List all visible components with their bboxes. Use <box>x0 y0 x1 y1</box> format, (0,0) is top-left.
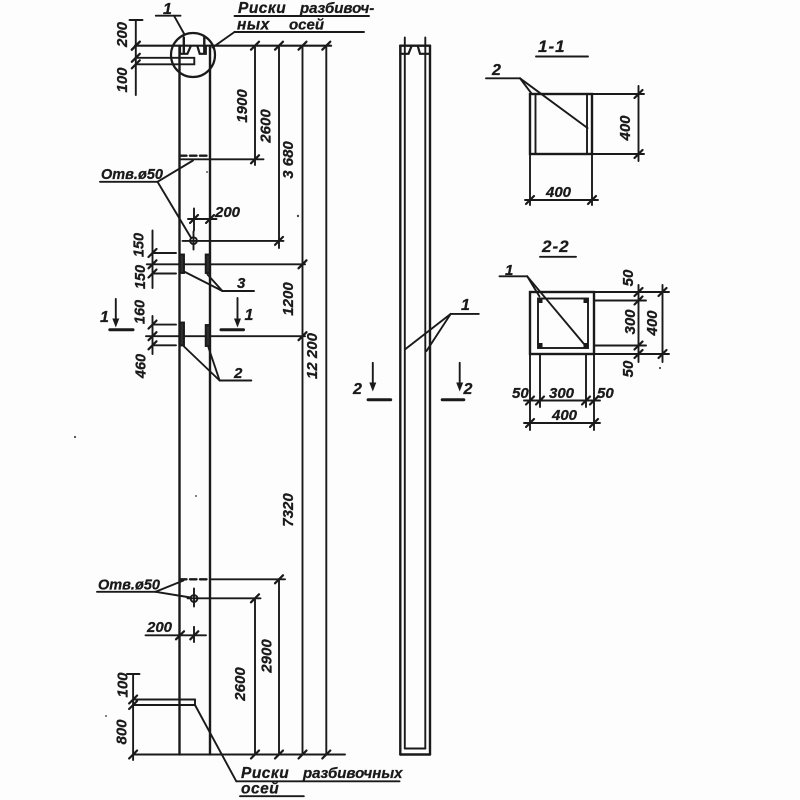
section mark 1 right arrow <box>237 298 239 320</box>
scan speckle c <box>206 171 208 173</box>
tick left chain y64.3 <box>132 60 140 68</box>
s22 outer right chain 400 <box>662 285 664 362</box>
axis mark notch right centerline <box>203 38 205 54</box>
svg-text:1: 1 <box>245 307 254 324</box>
label 1 leader <box>174 16 185 35</box>
tick r400 bottom <box>659 350 667 358</box>
tick r 345.5 <box>635 342 643 350</box>
svg-text:осей: осей <box>289 17 324 34</box>
long ext plate3 centerline <box>147 263 305 265</box>
bottom label underline row2 <box>240 795 304 797</box>
Otv top leader to dashed hole <box>158 161 194 182</box>
svg-text:осей: осей <box>241 781 279 798</box>
svg-text:200: 200 <box>146 619 173 636</box>
tick left chain y45.7 <box>132 42 140 50</box>
svg-text:2: 2 <box>233 365 243 382</box>
embedded plate 3 right <box>206 255 210 274</box>
section 2-2 rebar cage <box>538 299 588 349</box>
rebar corner bar b <box>584 298 589 303</box>
svg-text:160: 160 <box>133 300 149 324</box>
label 1 underline <box>156 15 181 17</box>
tick 400r bottom <box>635 150 643 158</box>
side view notch right <box>418 46 430 54</box>
svg-text:1900: 1900 <box>234 89 251 123</box>
svg-text:100: 100 <box>114 67 131 93</box>
svg-text:150: 150 <box>133 265 149 289</box>
tick 200 at edge <box>206 215 214 223</box>
svg-text:800: 800 <box>114 719 131 745</box>
tick 100 lower <box>129 701 137 709</box>
hole Otv50 bottom <box>191 595 198 602</box>
svg-text:50: 50 <box>597 385 614 402</box>
svg-text:400: 400 <box>551 407 578 424</box>
section mark 2 right arrow <box>459 363 461 384</box>
Otv top leader to round hole <box>158 182 192 238</box>
s22 ext right y300.5 <box>594 300 646 302</box>
svg-text:2600: 2600 <box>232 667 249 702</box>
embedded plate 2 left <box>180 323 184 346</box>
rebar corner bar c <box>538 343 543 348</box>
rebar corner bar a <box>538 298 543 303</box>
svg-text:150: 150 <box>132 233 148 257</box>
svg-text:300: 300 <box>549 385 575 402</box>
svg-text:400: 400 <box>617 115 634 142</box>
label underline row1 <box>235 15 370 17</box>
tick 3680 bottom <box>299 260 307 268</box>
scan speckle d <box>659 367 661 369</box>
ext plate3 bottom <box>153 273 177 275</box>
section mark 2 right bar <box>442 398 464 401</box>
scan speckle e <box>195 495 197 497</box>
Otv bottom leader to dashed hole <box>156 581 184 592</box>
hole bottom vertical axis <box>193 589 195 607</box>
dim 200 top line <box>188 218 217 220</box>
tick top chain x135.8 <box>132 42 140 50</box>
100 offset bracket lines <box>136 58 195 65</box>
hole vertical axis <box>193 232 195 250</box>
s22 ext bottom x594 <box>593 354 595 430</box>
section 1-1 ext right bottom <box>592 153 644 155</box>
svg-text:2900: 2900 <box>259 639 276 674</box>
label leader to circle <box>213 32 235 48</box>
svg-text:2600: 2600 <box>258 109 275 144</box>
section 1-1 title underline <box>536 56 588 58</box>
section mark 1 left bar <box>110 328 133 331</box>
column top edge and top dimension line <box>135 45 331 47</box>
top-left dimension chain line <box>135 20 137 95</box>
s22 ext right y345.5 <box>594 345 646 347</box>
s22 ext right y292 <box>594 291 669 293</box>
svg-text:2: 2 <box>352 381 362 398</box>
tick r 292 <box>635 288 643 296</box>
column front view right edge <box>209 46 211 755</box>
tick top x326.3 <box>322 42 330 50</box>
svg-text:разбивочных: разбивочных <box>302 765 403 782</box>
extension 2900 level <box>210 578 285 580</box>
section mark 1 left arrow <box>115 299 117 320</box>
tick bottom x302.5 <box>299 751 307 759</box>
section 1-1 leader long <box>520 78 588 128</box>
s22 outer bottom chain 400 <box>524 422 600 424</box>
section 1-1 leader short <box>520 78 532 93</box>
section 2-2 title underline <box>540 256 576 258</box>
svg-text:3 680: 3 680 <box>280 141 297 179</box>
tick r 354 <box>635 350 643 358</box>
chain top cap <box>130 19 143 21</box>
tick 400b right <box>588 196 596 204</box>
hidden hole dashed line top <box>180 154 207 156</box>
tick 100 <box>129 696 137 704</box>
label 2 leader left <box>184 347 220 381</box>
tick 160 a <box>149 321 157 329</box>
bottom chain 2600 <box>254 598 256 754</box>
embedded plate 2 right <box>206 325 210 346</box>
tick 200b at hole <box>190 631 198 639</box>
tick r 300.5 <box>635 297 643 305</box>
tick b 540 <box>536 397 544 405</box>
dim 200 top hole vertical ext <box>193 209 195 231</box>
svg-text:400: 400 <box>644 310 661 337</box>
side view inner right line <box>424 38 426 749</box>
tick top x279 <box>275 42 283 50</box>
rebar leader a <box>406 314 451 349</box>
svg-text:100: 100 <box>115 672 132 698</box>
tick 800 <box>129 751 137 759</box>
left small chain 150-150 <box>152 231 154 289</box>
side view bottom edge <box>400 753 430 755</box>
dim 200 bottom line <box>146 634 207 636</box>
section 1-1 dim line 400 right <box>638 86 640 161</box>
axis mark notch left <box>180 46 191 54</box>
tick top x255 <box>251 42 259 50</box>
bottom chain 2900 <box>278 579 280 754</box>
tick 400b left <box>526 196 534 204</box>
bottom-left chain 100-800 <box>132 674 134 760</box>
svg-text:разбивоч-: разбивоч- <box>299 0 374 17</box>
tick 150 b <box>149 260 157 268</box>
label 3 leader right <box>208 275 223 292</box>
tick 200b at edge <box>176 631 184 639</box>
svg-text:Риски: Риски <box>241 765 289 782</box>
tick 150 c <box>149 270 157 278</box>
section mark 2 left arrow <box>372 363 374 384</box>
bottom dimension base line <box>133 754 345 756</box>
svg-text:2-2: 2-2 <box>541 237 570 256</box>
svg-text:300: 300 <box>622 309 639 335</box>
svg-text:2: 2 <box>463 381 473 398</box>
label underline row2 <box>235 31 365 33</box>
section 1-1 ext bottom right <box>591 154 593 205</box>
s22 ext bottom x530 <box>529 354 531 430</box>
section 2-2 square <box>530 292 594 354</box>
Otv top underline <box>100 181 158 183</box>
left small chain 160-460 <box>152 316 154 354</box>
tick 400r top <box>635 90 643 98</box>
label 2 leader right <box>209 348 220 381</box>
dim chain 3680-1200-7320 <box>302 46 304 755</box>
section 1-1 ext bottom left <box>529 154 531 205</box>
bottom label underline row1 <box>236 780 399 782</box>
bottom axis mark upper line <box>133 699 195 701</box>
dim chain 12200 <box>325 46 327 755</box>
svg-text:Риски: Риски <box>238 0 286 17</box>
tick b400 left <box>526 419 534 427</box>
rebar leader b <box>427 314 451 351</box>
svg-text:1: 1 <box>100 309 109 326</box>
svg-text:460: 460 <box>134 354 150 379</box>
axis mark notch left centerline <box>183 38 185 54</box>
svg-text:3: 3 <box>237 275 246 292</box>
tick 150 a <box>149 249 157 257</box>
section mark 1 right bar <box>221 328 244 331</box>
bottom-left chain cap <box>127 673 140 675</box>
bottom axis mark end cap <box>194 700 196 706</box>
scan speckle b <box>297 215 299 217</box>
detail circle callout <box>171 33 215 77</box>
svg-text:Отв.ø50: Отв.ø50 <box>101 167 163 183</box>
long ext plate2 centerline <box>146 335 305 337</box>
svg-text:50: 50 <box>512 385 529 402</box>
label 2 underline <box>220 380 252 382</box>
svg-text:12 200: 12 200 <box>304 332 321 379</box>
tick 160 b <box>149 332 157 340</box>
column front view left edge <box>178 46 180 755</box>
section 2-2 label 1 underline <box>500 275 528 277</box>
s22 inner right chain <box>638 285 640 362</box>
svg-text:ных: ных <box>237 17 271 34</box>
svg-text:2: 2 <box>491 62 501 79</box>
svg-text:1: 1 <box>461 297 470 314</box>
tick 160 c <box>149 341 157 349</box>
tick 2600 bottom <box>275 237 283 245</box>
section 2-2 leader short <box>527 276 539 296</box>
tick bottom x279 <box>275 751 283 759</box>
svg-text:1-1: 1-1 <box>538 37 566 56</box>
Otv bottom leader to round hole <box>156 592 191 598</box>
tick bottom x326.3 <box>322 751 330 759</box>
section 1-1 square <box>530 94 592 154</box>
tick 1900 bottom <box>251 155 259 163</box>
tick b 530 <box>526 397 534 405</box>
tick bottom x255 <box>251 751 259 759</box>
ext plate2 top <box>153 324 177 326</box>
dim 200 bottom vertical ext <box>193 627 195 642</box>
tick b 586 <box>582 397 590 405</box>
svg-text:200: 200 <box>214 204 241 221</box>
svg-text:400: 400 <box>545 184 572 201</box>
Otv bottom underline <box>97 591 156 593</box>
section mark 2 left bar <box>368 398 391 401</box>
scan speckle a <box>74 436 76 438</box>
tick left chain y57.8 <box>132 54 140 62</box>
bottom axis mark lower line <box>133 704 195 706</box>
section 1-1 dim line 400 bottom <box>525 199 598 201</box>
svg-text:200: 200 <box>114 21 131 48</box>
tick b 594 <box>590 397 598 405</box>
svg-text:1200: 1200 <box>280 282 297 316</box>
svg-text:7320: 7320 <box>280 493 297 527</box>
svg-text:50: 50 <box>620 269 637 286</box>
tick top x302.5 <box>299 42 307 50</box>
s22 ext bottom x540 <box>539 354 541 407</box>
tick 200 at hole <box>190 215 198 223</box>
s22 ext bottom x586 <box>585 354 587 407</box>
side view inner left line <box>404 38 406 749</box>
section 1-1 label 2 underline <box>486 77 520 79</box>
section 1-1 inner chamfer left <box>535 94 537 154</box>
bottom label leader <box>195 705 236 781</box>
side view outer right edge <box>429 46 431 755</box>
hole Otv50 top <box>190 237 197 244</box>
dim chain 1900 <box>254 46 256 165</box>
section 2-2 leader long <box>527 276 584 344</box>
tick 2900 top <box>275 575 283 583</box>
hidden hole dashed line bottom <box>180 578 207 580</box>
side view top edge <box>400 45 430 47</box>
extension line hole1 level y159 <box>180 158 264 160</box>
ext plate2 bottom <box>153 344 177 346</box>
section 1-1 inner chamfer right <box>586 94 588 154</box>
s22 inner bottom chain <box>524 400 600 402</box>
tick 1200 bottom <box>299 332 307 340</box>
side view outer left edge <box>399 46 401 755</box>
tick 2600 top <box>251 594 259 602</box>
label 3 leader left <box>184 272 222 292</box>
side view notch left <box>401 46 412 54</box>
rebar label line <box>451 313 479 315</box>
tick r400 top <box>659 288 667 296</box>
label 3 underline <box>222 290 254 292</box>
hole bottom axis extension <box>188 597 261 599</box>
side view inner bottom line <box>405 748 426 750</box>
dim chain 2600 <box>278 46 280 248</box>
rebar corner bar d <box>584 343 589 348</box>
axis mark notch right <box>197 46 205 54</box>
svg-text:50: 50 <box>620 360 637 377</box>
upper hole axis extension <box>183 240 284 242</box>
s22 ext right y354 <box>594 353 669 355</box>
ext plate3 top <box>153 252 177 254</box>
section 1-1 ext right top <box>592 93 644 95</box>
scan speckle f <box>105 715 107 717</box>
tick b400 right <box>590 419 598 427</box>
embedded plate 3 left <box>180 255 184 274</box>
